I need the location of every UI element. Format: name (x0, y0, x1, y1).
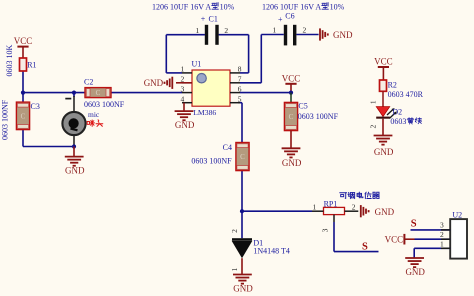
svg-text:0603 100NF: 0603 100NF (298, 112, 339, 121)
potentiometer RP1 (340, 192, 347, 194)
ground right of RP1 (360, 205, 362, 217)
svg-text:6: 6 (238, 84, 242, 93)
ground below C5 (290, 131, 292, 149)
svg-text:D2: D2 (392, 107, 402, 116)
svg-text:U1: U1 (192, 60, 202, 69)
svg-text:GND: GND (375, 207, 395, 217)
svg-text:1206 10UF 16V A: 1206 10UF 16V A (152, 2, 211, 11)
wire pin5 to C4 (238, 102, 242, 104)
svg-text:4: 4 (180, 95, 184, 104)
svg-text:C1: C1 (209, 14, 218, 23)
svg-text:mic: mic (88, 110, 100, 119)
op-amp U1 LM386 (192, 70, 230, 106)
svg-text:0603 10K: 0603 10K (5, 45, 14, 77)
svg-text:R2: R2 (388, 80, 397, 89)
svg-text:S: S (362, 241, 368, 252)
resistor R1 (20, 58, 27, 71)
svg-text:5: 5 (238, 95, 242, 104)
svg-text:+: + (278, 15, 283, 24)
wire junction to D1 (241, 211, 243, 238)
svg-text:+: + (201, 15, 206, 24)
svg-text:C5: C5 (298, 102, 307, 111)
svg-text:8: 8 (238, 65, 242, 74)
ground below mic (73, 147, 75, 157)
svg-text:C: C (21, 112, 26, 120)
svg-text:0603 100NF: 0603 100NF (84, 100, 125, 109)
svg-text:GND: GND (405, 267, 425, 277)
svg-text:LM386: LM386 (193, 108, 216, 117)
capacitor C5 (290, 93, 292, 103)
U1 pin stubs (182, 72, 192, 74)
svg-text:C3: C3 (31, 102, 40, 111)
svg-text:GND: GND (233, 284, 253, 294)
svg-text:GND: GND (65, 166, 85, 176)
svg-text:2: 2 (440, 230, 444, 239)
ground below D1 (241, 258, 243, 274)
wire C6 left to pin7 (261, 34, 284, 36)
svg-text:1: 1 (196, 26, 200, 35)
ground at U1 pin2 (176, 82, 192, 84)
svg-text:3: 3 (440, 221, 444, 230)
svg-text:GND: GND (175, 120, 195, 130)
svg-text:GND: GND (144, 78, 164, 88)
svg-text:C4: C4 (223, 143, 232, 152)
svg-text:1: 1 (313, 203, 317, 212)
wire input net horizontal (23, 92, 85, 94)
svg-text:3: 3 (180, 84, 184, 93)
node junction mic top (72, 91, 76, 95)
svg-text:R1: R1 (27, 61, 36, 70)
wire C2 to U1 pin3 (111, 92, 182, 94)
wire junction to RP1 pin1 (242, 210, 312, 212)
wire C1 right to pin8 (219, 34, 249, 36)
svg-text:C2: C2 (84, 78, 93, 87)
wire C6 right to GND (296, 34, 318, 36)
ground right of C6 (319, 28, 321, 40)
wire C1 left loop to pin1 (166, 34, 205, 36)
svg-text:1: 1 (369, 100, 378, 104)
svg-text:VCC: VCC (14, 36, 33, 46)
svg-text:1: 1 (440, 239, 444, 248)
svg-text:1206 10UF 16V A: 1206 10UF 16V A (262, 2, 321, 11)
ground at U1 pin4 (183, 103, 185, 111)
svg-text:2: 2 (303, 26, 307, 35)
svg-text:GND: GND (282, 158, 302, 168)
svg-text:7: 7 (238, 75, 242, 84)
wire mic bottom lead (73, 136, 75, 147)
resistor R2 (380, 80, 387, 91)
svg-text:10%: 10% (220, 2, 235, 11)
node junction R1/C3 (21, 91, 25, 95)
svg-text:0603 100NF: 0603 100NF (1, 99, 10, 140)
svg-text:0603 470R: 0603 470R (388, 90, 424, 99)
svg-text:GND: GND (374, 147, 394, 157)
wire pin6 to VCC junction (240, 92, 291, 94)
svg-text:C: C (240, 153, 245, 161)
svg-text:3: 3 (320, 228, 329, 232)
svg-text:VCC: VCC (374, 57, 393, 67)
wire C3 to mic bottom (23, 146, 74, 148)
wire C4 bottom to junction (241, 171, 243, 212)
capacitor C3 (16, 102, 29, 130)
svg-text:GND: GND (333, 30, 353, 40)
ground below D2 (382, 119, 384, 136)
node junction mic bottom (72, 144, 76, 148)
microphone MK1 (62, 112, 85, 135)
svg-text:2: 2 (369, 124, 378, 128)
svg-text:0603 100NF: 0603 100NF (191, 156, 232, 165)
svg-text:1: 1 (180, 65, 184, 74)
svg-text:VCC: VCC (282, 73, 301, 83)
wire RP1 wiper S net (333, 222, 335, 252)
svg-text:1: 1 (230, 267, 239, 271)
svg-text:2: 2 (230, 229, 239, 233)
svg-text:2: 2 (352, 203, 356, 212)
node junction VCC/C5 (289, 91, 293, 95)
led D2 (382, 91, 384, 106)
node junction C4/RP1/D1 (240, 209, 244, 213)
svg-text:C: C (289, 113, 294, 121)
svg-text:1N4148 T4: 1N4148 T4 (253, 247, 290, 256)
svg-text:2: 2 (224, 26, 228, 35)
wire mic top lead (73, 93, 75, 97)
wire C3 bottom (22, 130, 24, 147)
svg-text:C6: C6 (285, 11, 294, 20)
svg-text:C: C (96, 89, 101, 97)
mic minus mark (65, 98, 71, 100)
ground below U2 pin1 (405, 257, 424, 259)
mic label chinese (87, 121, 89, 124)
svg-text:VCC: VCC (385, 235, 404, 245)
svg-text:S: S (411, 219, 417, 230)
U2 pin1 with GND (414, 247, 450, 249)
svg-text:0603: 0603 (390, 117, 406, 126)
U2 pin3 (411, 229, 451, 231)
wire junction to C3 (22, 93, 24, 103)
svg-text:1: 1 (273, 26, 277, 35)
svg-text:10%: 10% (330, 2, 345, 11)
wire VCC-R1 junction column (22, 71, 24, 93)
